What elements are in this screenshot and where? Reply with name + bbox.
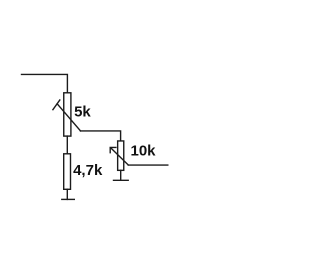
wire output right	[128, 164, 168, 166]
resistor body 4,7k	[64, 154, 71, 190]
potentiometer 10k wiper arrowhead	[110, 147, 116, 152]
wire 10k bottom to ground	[120, 170, 122, 180]
wire 5k wiper to 10k top	[81, 131, 121, 140]
potentiometer body 5k	[64, 93, 71, 136]
ground bar right	[114, 179, 129, 181]
wire 5k bottom to 4,7k	[66, 136, 68, 154]
svg-text:4,7k: 4,7k	[73, 162, 103, 179]
wire 4,7k bottom to ground	[66, 189, 68, 199]
potentiometer 5k wiper diagonal	[57, 104, 80, 131]
potentiometer 10k wiper diagonal	[111, 148, 128, 165]
wire top feed to 5k	[22, 74, 68, 92]
ground bar left	[62, 198, 75, 200]
svg-text:10k: 10k	[131, 142, 157, 159]
potentiometer body 10k	[118, 141, 124, 170]
potentiometer 5k wiper end bar	[53, 100, 60, 110]
svg-text:5k: 5k	[74, 104, 91, 121]
